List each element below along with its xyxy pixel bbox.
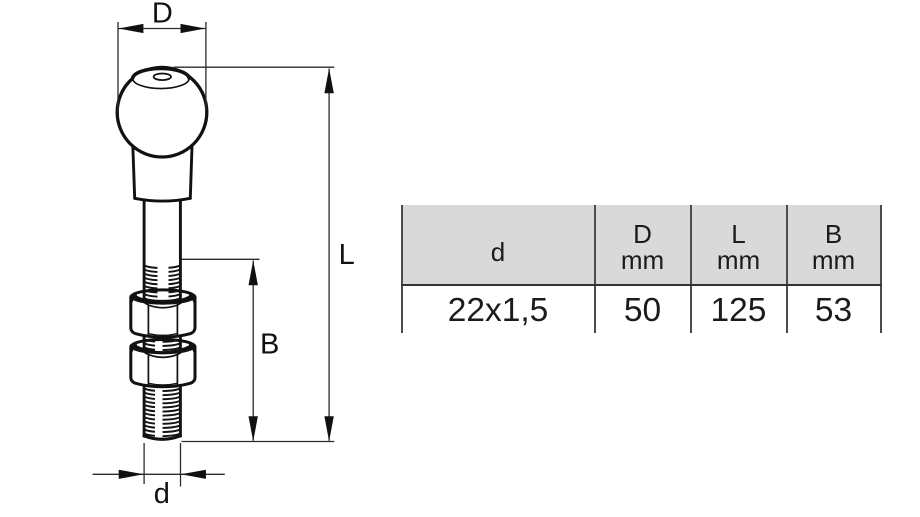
svg-text:D: D [152,0,173,29]
thread highlight band upper [158,263,169,298]
neck below ball [133,140,193,201]
extension line from ball top [174,66,335,68]
extension line B from shank [182,258,260,260]
hex nut 1 [131,290,195,337]
dimension D extension lines [118,22,206,111]
dimension d extension lines [144,443,180,487]
dimension L line with arrowheads [324,68,333,441]
table left border [401,205,403,333]
center hole [154,74,171,81]
table right border [880,205,882,333]
table column divider 3 [786,205,788,333]
data cell 50 [595,288,690,334]
hex nut 2 [131,340,195,387]
extension line from stud bottom [182,441,335,443]
table column divider 1 [594,205,596,333]
data cell 125 [691,288,786,334]
svg-text:L: L [339,239,355,271]
svg-text:d: d [154,478,170,510]
ball flat top [133,68,190,89]
header cell L mm [691,207,786,287]
dimension B line with arrowheads [249,260,258,441]
header cell d [402,212,594,292]
dimension d line with inward arrowheads [93,470,225,479]
thread highlight band lower [155,334,163,437]
svg-text:B: B [260,329,279,361]
data table header background [402,205,881,285]
ball head [117,67,207,157]
header cell B mm [787,207,880,287]
thread hatching [145,266,180,436]
data cell 22x1,5 [402,288,594,334]
table column divider 2 [690,205,692,333]
dimension D line with arrowheads [118,24,205,33]
header cell D mm [595,207,690,287]
data cell 53 [787,288,880,334]
table header separator line [401,284,882,286]
stud bottom edge [144,436,180,440]
shank (rod) [144,201,180,437]
